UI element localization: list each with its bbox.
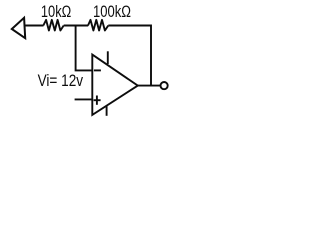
- svg-text:Vi= 12v: Vi= 12v: [38, 71, 84, 90]
- output wire: [138, 85, 161, 87]
- wire R1 to R2: [64, 25, 88, 27]
- non-inverting input stub wire: [75, 98, 93, 100]
- resistor R2 100k zigzag: [88, 20, 108, 31]
- positive supply stub: [107, 51, 109, 64]
- output terminal circle: [161, 82, 168, 89]
- op-amp U1 triangle: [92, 55, 138, 115]
- svg-text:100kΩ: 100kΩ: [93, 3, 131, 22]
- svg-text:10kΩ: 10kΩ: [41, 3, 71, 22]
- op-amp minus sign: [94, 69, 101, 71]
- feedback wire right and down: [108, 26, 151, 86]
- negative supply stub: [106, 106, 108, 116]
- input terminal arrow: [12, 18, 25, 38]
- resistor R1 10k zigzag: [43, 20, 63, 31]
- op-amp plus sign: [94, 99, 101, 101]
- wire input to R1: [26, 25, 44, 27]
- node wire down to inverting input: [76, 26, 93, 71]
